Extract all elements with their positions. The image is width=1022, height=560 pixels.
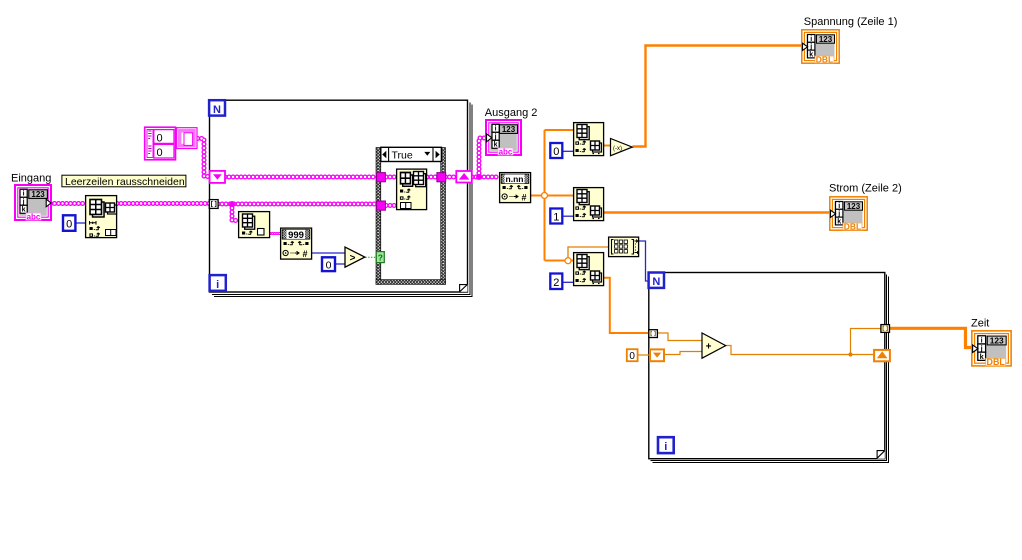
svg-text:+: +: [706, 341, 712, 352]
svg-text:0: 0: [553, 146, 559, 158]
svg-text:i: i: [23, 191, 25, 198]
svg-text:2: 2: [553, 277, 559, 289]
svg-text:k: k: [494, 142, 498, 149]
svg-text:Zeit: Zeit: [971, 317, 989, 329]
svg-text:?: ?: [378, 253, 383, 263]
svg-text:0: 0: [629, 351, 635, 362]
svg-text:True: True: [392, 149, 413, 161]
svg-text:j: j: [494, 134, 497, 141]
svg-text:N: N: [652, 276, 660, 288]
svg-text:#: #: [302, 249, 307, 259]
svg-text:1: 1: [553, 212, 559, 224]
svg-text:abc: abc: [499, 147, 513, 156]
svg-text:Eingang: Eingang: [11, 173, 51, 185]
svg-text:0: 0: [66, 218, 72, 230]
svg-text:i: i: [664, 441, 667, 453]
svg-text:Ausgang 2: Ausgang 2: [485, 107, 538, 119]
svg-text:i: i: [495, 126, 497, 133]
svg-text:i: i: [216, 279, 219, 291]
svg-text:abc: abc: [27, 212, 41, 221]
svg-text:j: j: [22, 199, 25, 206]
svg-text:0: 0: [157, 147, 163, 159]
svg-text:Strom (Zeile 2): Strom (Zeile 2): [829, 183, 902, 195]
svg-text:123: 123: [31, 190, 45, 199]
svg-text:0: 0: [326, 259, 332, 271]
svg-text:(-x): (-x): [613, 146, 622, 152]
svg-text:0: 0: [157, 132, 163, 144]
svg-text:#: #: [521, 192, 526, 202]
svg-text:123: 123: [502, 125, 516, 134]
svg-text:k: k: [22, 207, 26, 214]
svg-text:N: N: [213, 104, 221, 116]
svg-text:Spannung (Zeile 1): Spannung (Zeile 1): [804, 16, 898, 28]
svg-text:>: >: [350, 253, 356, 264]
svg-text:n.nn: n.nn: [506, 174, 524, 184]
svg-text:999: 999: [288, 230, 304, 241]
svg-text:Leerzeilen rausschneiden: Leerzeilen rausschneiden: [65, 176, 185, 188]
